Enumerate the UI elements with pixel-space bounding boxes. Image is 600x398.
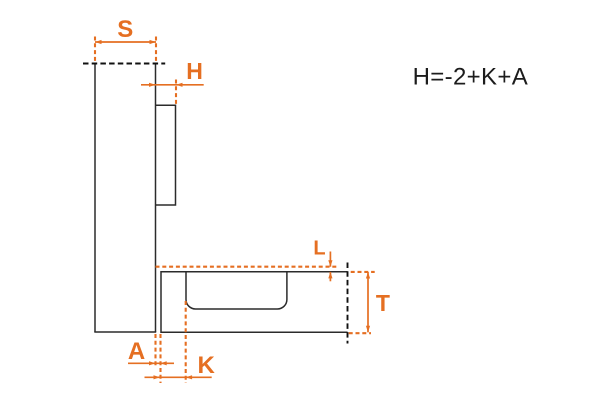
svg-text:H=-2+K+A: H=-2+K+A	[413, 63, 529, 90]
svg-text:S: S	[117, 16, 133, 43]
svg-text:T: T	[376, 290, 390, 316]
svg-text:H: H	[186, 58, 203, 84]
svg-text:L: L	[313, 238, 325, 260]
svg-text:A: A	[128, 338, 145, 365]
svg-text:K: K	[198, 352, 216, 379]
